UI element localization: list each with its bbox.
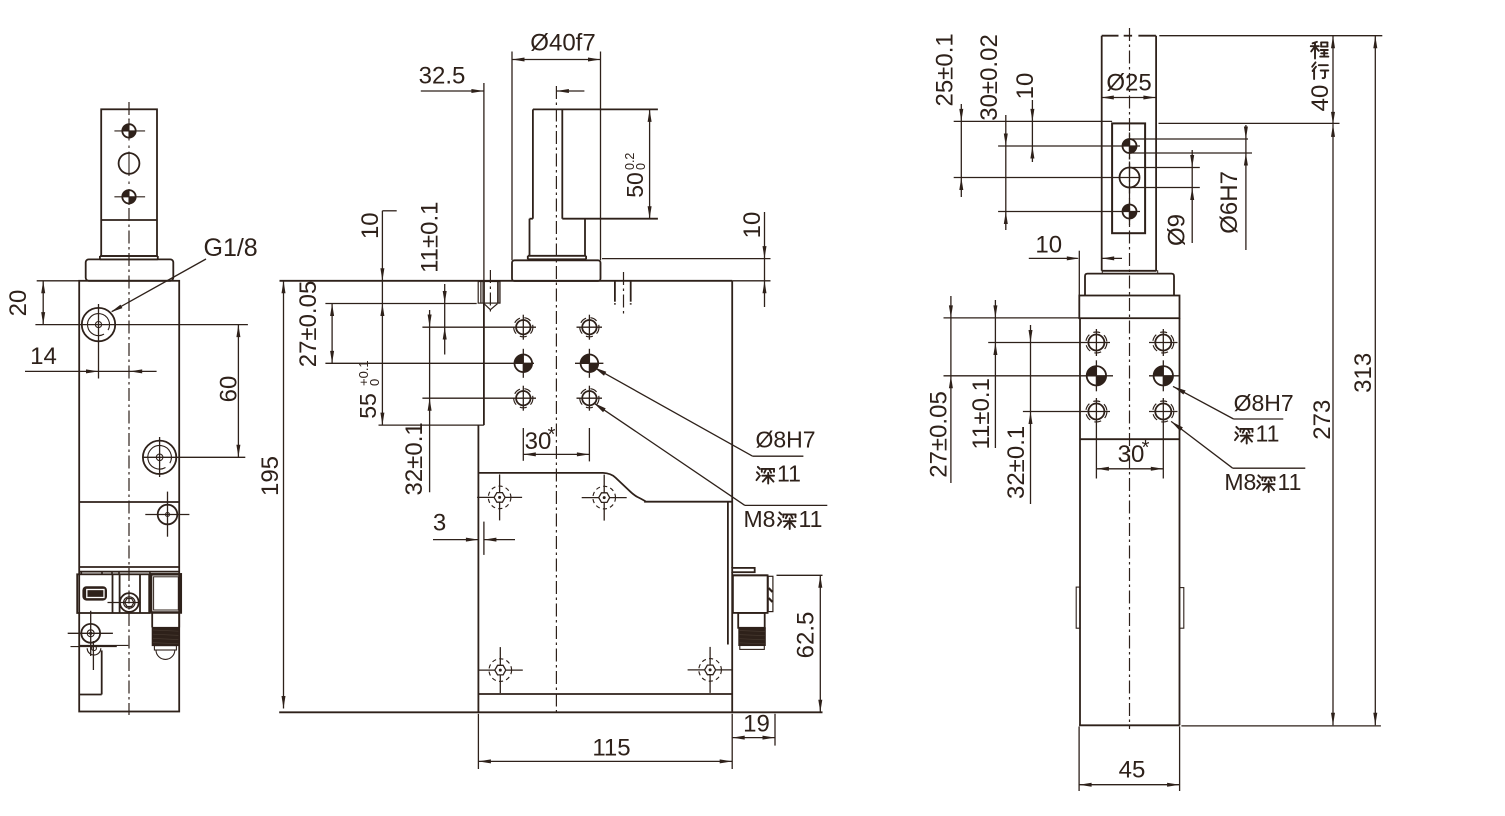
svg-text:19: 19 [743,711,770,738]
svg-text:313: 313 [1350,353,1377,393]
svg-text:*: * [1142,437,1150,459]
svg-text:10: 10 [357,212,384,239]
svg-text:32±0.1: 32±0.1 [1003,426,1030,499]
svg-text:*: * [548,424,556,446]
svg-text:Ø9: Ø9 [1164,214,1191,246]
svg-text:27±0.05: 27±0.05 [925,391,952,478]
svg-text:3: 3 [433,510,446,537]
svg-text:273: 273 [1309,400,1336,440]
svg-text:0: 0 [634,163,648,170]
svg-text:14: 14 [30,343,57,370]
svg-text:32±0.1: 32±0.1 [401,422,428,495]
svg-text:Ø8H7: Ø8H7 [1234,390,1294,416]
svg-text:195: 195 [257,456,284,496]
svg-text:115: 115 [592,735,630,762]
svg-text:Ø25: Ø25 [1106,70,1151,97]
svg-text:Ø8H7: Ø8H7 [756,427,816,453]
svg-text:27±0.05: 27±0.05 [295,281,322,368]
svg-text:0: 0 [367,379,382,386]
svg-text:Ø6H7: Ø6H7 [1216,171,1243,234]
svg-text:G1/8: G1/8 [204,234,258,262]
svg-text:45: 45 [1119,757,1146,784]
svg-text:30±0.02: 30±0.02 [976,34,1003,121]
svg-text:10: 10 [1035,232,1062,259]
svg-text:Ø40f7: Ø40f7 [530,30,595,57]
svg-text:60: 60 [216,376,243,403]
svg-text:32.5: 32.5 [419,63,466,90]
svg-text:25±0.1: 25±0.1 [931,33,958,106]
svg-text:11: 11 [777,461,801,487]
svg-text:11: 11 [1256,421,1280,447]
svg-text:10: 10 [739,212,766,239]
svg-text:10: 10 [1012,73,1039,100]
svg-text:55: 55 [355,393,381,419]
svg-text:11: 11 [1278,469,1302,495]
svg-text:30: 30 [1118,441,1145,468]
svg-text:11: 11 [799,506,823,532]
svg-text:M8: M8 [744,506,776,532]
svg-text:11±0.1: 11±0.1 [968,378,995,449]
svg-text:M8: M8 [1224,469,1256,495]
svg-text:11±0.1: 11±0.1 [416,201,443,272]
svg-text:40: 40 [1307,85,1334,112]
svg-text:20: 20 [5,290,32,317]
svg-text:62.5: 62.5 [793,612,820,659]
svg-text:50: 50 [622,172,648,198]
